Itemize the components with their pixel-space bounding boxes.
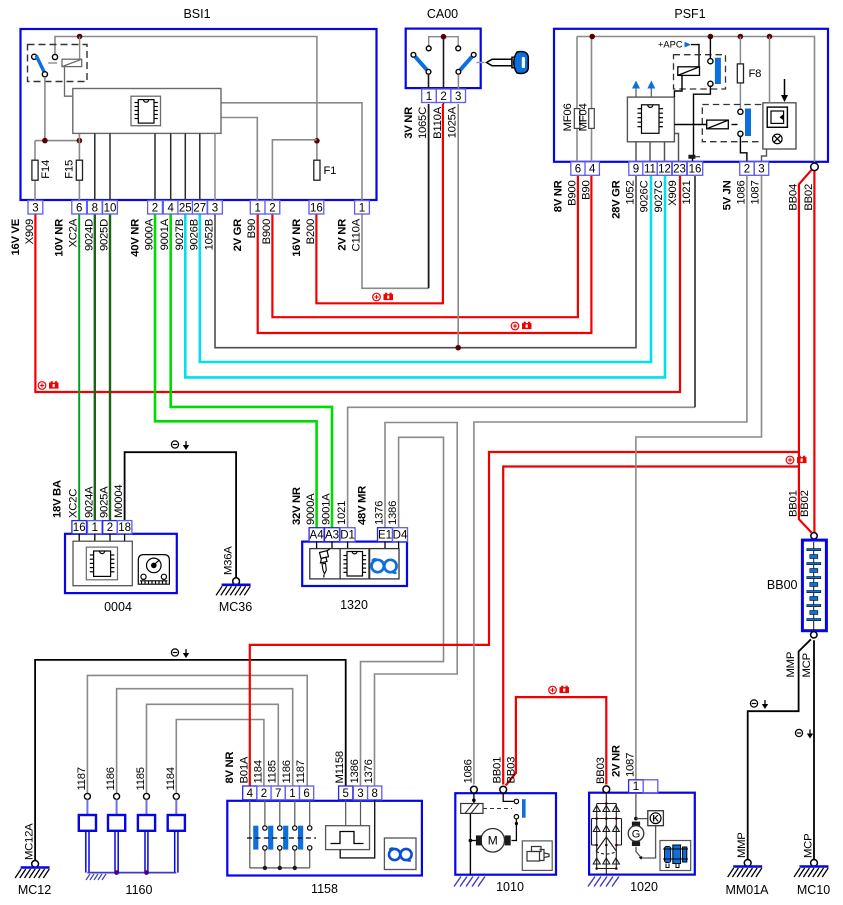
svg-text:1086: 1086 (735, 181, 747, 205)
wire 1052B dark grey BSI1 pin3b to PSF1 pin9 (215, 176, 636, 348)
svg-text:BB00: BB00 (767, 578, 798, 592)
pin 25 BSI1 (178, 201, 193, 215)
svg-text:K: K (652, 813, 659, 823)
battery symbol on B200 (373, 293, 393, 301)
pin A3 1320 (325, 528, 340, 542)
svg-text:1: 1 (633, 781, 639, 793)
svg-text:2V GR: 2V GR (232, 219, 244, 252)
pin 2 BSI1 (265, 201, 280, 215)
fuse F1 (314, 160, 320, 180)
pin D4 1320 (393, 528, 408, 542)
wire F14 leg (34, 141, 36, 200)
svg-text:BB01: BB01 (787, 490, 799, 517)
svg-text:C110A: C110A (351, 218, 363, 251)
switch lever CA00 left (411, 52, 416, 57)
svg-text:2: 2 (269, 202, 275, 214)
svg-text:32V NR: 32V NR (291, 487, 303, 525)
blue bar K3 (745, 109, 751, 137)
pin 1 BSI1 (250, 201, 265, 215)
svg-text:7: 7 (275, 788, 281, 800)
svg-text:XC2C: XC2C (68, 489, 80, 518)
dashed link (483, 808, 512, 810)
svg-text:10: 10 (104, 202, 117, 214)
wire MF06 leg (576, 37, 578, 163)
svg-text:1320: 1320 (340, 598, 368, 612)
svg-text:11: 11 (644, 164, 656, 176)
svg-text:1186: 1186 (281, 760, 293, 783)
spark plug 3 (144, 793, 150, 799)
wire 1160 earth bus (87, 872, 176, 874)
pin 27 BSI1 (192, 201, 207, 215)
wire X909 red BSI1 pin3 to PSF1 pin23 (35, 176, 680, 392)
svg-text:25: 25 (179, 202, 192, 214)
node lever end circle (42, 72, 47, 77)
pin 3 CA00 (451, 89, 466, 103)
svg-text:A3: A3 (325, 530, 339, 542)
svg-text:2: 2 (152, 202, 158, 214)
svg-text:2V NR: 2V NR (610, 745, 622, 777)
svg-text:5: 5 (342, 788, 348, 800)
svg-text:6: 6 (303, 788, 309, 800)
box CA00 (406, 29, 481, 89)
wire 1025A grey CA00 pin3 down to 1052 junction (457, 104, 459, 348)
wire bus drop to module (769, 37, 771, 103)
svg-text:9026B: 9026B (188, 219, 200, 250)
svg-text:MCP: MCP (801, 653, 813, 677)
wire pin16 stub (692, 158, 694, 162)
ECU box BSI1 (73, 89, 221, 134)
fuse MF04 (589, 109, 595, 129)
wire BB03 red 1010 to 1020 (506, 697, 607, 785)
pin 3 1158 (353, 786, 367, 800)
wire B900 red BSI1 pin2b to PSF1 pin6 (272, 176, 578, 317)
box PSF1 (554, 29, 828, 162)
spark plug 1 (84, 793, 90, 799)
svg-text:1087: 1087 (624, 753, 636, 777)
injector icon 1320 (320, 549, 331, 578)
svg-text:MM01A: MM01A (725, 883, 769, 897)
pin 3 PSF1 (754, 162, 768, 176)
svg-text:1: 1 (426, 91, 432, 103)
svg-text:3: 3 (32, 202, 38, 214)
node MC12 terminal (32, 861, 39, 868)
pin 18 0004 (117, 521, 132, 534)
wire K2 coil to ECU (674, 75, 682, 97)
svg-text:1021: 1021 (336, 501, 348, 525)
svg-text:MC36: MC36 (219, 600, 252, 614)
pin 4 1158 (243, 786, 257, 800)
wire pin3 stub (360, 800, 362, 826)
svg-text:10V NR: 10V NR (54, 219, 66, 257)
wire contact to motor (512, 819, 517, 841)
svg-text:1187: 1187 (295, 760, 307, 783)
svg-text:XC2A: XC2A (68, 218, 80, 247)
node switch contact circle A (32, 54, 37, 59)
svg-text:D4: D4 (393, 530, 408, 542)
svg-text:6: 6 (575, 164, 581, 176)
wire 1187 grey plug1 to 1158 pin6 (87, 675, 307, 793)
svg-text:M0004: M0004 (113, 485, 125, 518)
wire pin stubs 0004 (79, 534, 124, 541)
wire BB01 to contact (503, 793, 514, 801)
fuse F15 (76, 160, 82, 180)
svg-text:1386: 1386 (349, 759, 361, 783)
svg-text:9026C: 9026C (639, 180, 651, 212)
svg-text:40V NR: 40V NR (130, 219, 142, 257)
ECU box PSF1 (627, 97, 674, 142)
svg-text:1187: 1187 (76, 767, 88, 790)
pin 23 PSF1 (672, 162, 686, 176)
svg-text:1052: 1052 (625, 181, 637, 205)
svg-text:27: 27 (193, 202, 206, 214)
wire BB01 red supply to 1010 (503, 467, 799, 785)
wire MF04 leg (591, 37, 593, 163)
svg-text:6: 6 (76, 202, 82, 214)
svg-text:F14: F14 (40, 160, 52, 179)
wire 9026B cyan BSI1 pin27 to PSF1 pin11 (200, 176, 651, 362)
svg-text:1086: 1086 (462, 759, 474, 783)
chip icon 1320 (343, 552, 366, 577)
svg-text:PSF1: PSF1 (674, 7, 705, 21)
alternator icon box (660, 841, 691, 871)
svg-text:BB02: BB02 (799, 490, 811, 517)
svg-text:B01A: B01A (238, 756, 250, 783)
pin 11 PSF1 (643, 162, 657, 176)
svg-text:G: G (632, 829, 641, 841)
pin E1 1320 (378, 528, 393, 542)
blue bar 1010 (522, 799, 526, 818)
svg-text:1158: 1158 (311, 882, 338, 896)
svg-text:1376: 1376 (363, 759, 375, 783)
1158 internals (250, 800, 310, 868)
battery BB00 (802, 540, 826, 631)
wire M0004 black 0004 pin18 to ground MC36 (125, 452, 237, 578)
svg-text:B900: B900 (567, 181, 579, 206)
node terminal 1086 (471, 786, 478, 793)
chip icon U1 (131, 96, 161, 126)
wire lever to fuse rail (44, 77, 46, 141)
wire solenoid ground (469, 813, 471, 874)
node K3 contact circles (738, 109, 743, 114)
node 1160 bus dots (114, 870, 119, 875)
svg-text:X909: X909 (24, 219, 36, 244)
wire coil bus (250, 867, 310, 869)
svg-text:3: 3 (758, 164, 764, 176)
box 1010 (455, 793, 556, 875)
minus symbol MCP (795, 729, 813, 738)
svg-text:MC10: MC10 (797, 883, 830, 897)
wire 9025D dark green BSI1 pin10 to 0004 pin2 (109, 212, 111, 528)
wire 1021 grey 1320 D1 to PSF1 pin16 (348, 407, 695, 528)
svg-text:1185: 1185 (135, 767, 147, 790)
svg-text:16: 16 (689, 164, 702, 176)
svg-text:X909: X909 (667, 181, 679, 206)
ground hatch 1160 (86, 874, 106, 880)
node contact circles 1010 (514, 799, 518, 803)
svg-text:16: 16 (73, 522, 86, 534)
wire pin8 route (340, 800, 375, 858)
chip icon 0004 (86, 547, 117, 580)
node contact circle right (456, 46, 461, 51)
pin 16 PSF1 (687, 162, 702, 176)
minus symbol MMP (750, 700, 768, 709)
wire 9024D dark green BSI1 pin8 to 0004 pin1 (94, 212, 96, 528)
svg-text:16: 16 (310, 202, 323, 214)
fuse F14 (32, 160, 38, 180)
wire pin1 drop (635, 793, 637, 819)
connector pins BSI1 (10, 201, 370, 257)
svg-text:18V BA: 18V BA (51, 480, 63, 518)
blue up arrows (635, 89, 637, 98)
box 1320 (302, 542, 407, 586)
wire 1386 grey 1320 D4 to 1158 pin3 (361, 437, 444, 787)
svg-text:BB03: BB03 (595, 757, 607, 784)
down arrow (784, 79, 786, 97)
pin 10 BSI1 (103, 201, 118, 215)
svg-text:1: 1 (289, 788, 295, 800)
svg-text:BB01: BB01 (492, 757, 504, 784)
svg-text:1: 1 (359, 202, 365, 214)
chip icon PSF1 (638, 105, 664, 134)
svg-text:1: 1 (254, 202, 260, 214)
pin 1 CA00 (422, 89, 437, 103)
svg-text:1376: 1376 (374, 501, 386, 525)
wire B01A red supply to 1158 pin4 (250, 452, 799, 787)
node rail dot B (77, 138, 83, 144)
pin 1 BSI1 (355, 201, 370, 215)
svg-text:1020: 1020 (630, 880, 658, 894)
svg-text:B900: B900 (261, 219, 273, 244)
wire 1087 grey PSF1 pin3 to 1020 pin1 (636, 176, 762, 780)
inner box 0004 (73, 541, 132, 586)
switch lever blue (36, 56, 44, 73)
svg-text:1184: 1184 (165, 767, 177, 790)
svg-text:16V VE: 16V VE (10, 218, 22, 255)
wire 1065C black riser to CA00 pin1 (428, 104, 430, 288)
svg-text:1052B: 1052B (204, 219, 216, 250)
svg-text:1: 1 (92, 522, 98, 534)
svg-text:4: 4 (589, 164, 596, 176)
pin 6 BSI1 (72, 201, 87, 215)
module square icon (767, 107, 787, 127)
svg-text:1160: 1160 (126, 883, 153, 897)
relay coil K1 (62, 59, 82, 66)
blue bar K2 (715, 58, 721, 84)
svg-text:9024D: 9024D (83, 219, 95, 251)
pin 3 BSI1 (208, 201, 223, 215)
svg-text:1065C: 1065C (417, 107, 429, 139)
fuse F8 line (739, 37, 741, 110)
pin 4 BSI1 (163, 201, 178, 215)
svg-text:MF04: MF04 (578, 104, 590, 132)
svg-text:2: 2 (107, 522, 113, 534)
svg-text:MF06: MF06 (562, 104, 574, 132)
svg-text:9001A: 9001A (159, 218, 171, 250)
svg-text:CA00: CA00 (427, 7, 458, 21)
pin 16 0004 (72, 521, 87, 534)
pin 1 0004 (88, 521, 103, 534)
pin 2 PSF1 (740, 162, 754, 176)
lamp circle-X (773, 134, 783, 144)
blower module box (763, 103, 796, 149)
svg-text:MC12: MC12 (18, 883, 51, 897)
svg-text:2: 2 (261, 788, 267, 800)
svg-text:MCP: MCP (803, 834, 815, 858)
transistor path (636, 826, 656, 858)
battery symbol on X909 (38, 381, 58, 389)
svg-text:MMP: MMP (736, 832, 748, 858)
svg-text:8V NR: 8V NR (553, 180, 565, 212)
wire B200 red BSI1 pin16 to CA00 pin2 (316, 104, 443, 303)
svg-text:A4: A4 (310, 530, 325, 542)
node junction 1025A/1052 (455, 345, 461, 351)
wire 1376 grey 1320 E1 to 1158 pin8 (375, 423, 458, 788)
node bridge dots (595, 802, 617, 870)
node rail dot A (42, 138, 48, 144)
ground MC36 (216, 585, 251, 596)
wire ECU drops to pins (95, 133, 200, 200)
pin 2 0004 (103, 521, 118, 534)
diode bridge 1020 (592, 793, 622, 875)
minus symbol M0004 (171, 441, 189, 450)
pin 1 1020 (629, 780, 644, 793)
wire K2 contact feed (709, 37, 711, 59)
svg-text:28V GR: 28V GR (611, 180, 623, 219)
svg-text:8: 8 (371, 788, 377, 800)
svg-text:BB04: BB04 (787, 184, 799, 211)
svg-text:9027B: 9027B (174, 219, 186, 250)
pin 16 BSI1 (309, 201, 324, 215)
wire 1184 grey plug4 to 1158 pin2 (176, 720, 264, 794)
svg-text:23: 23 (673, 164, 686, 176)
wire B90 riser (221, 118, 257, 201)
svg-text:F8: F8 (749, 68, 762, 80)
pin 4 PSF1 (585, 162, 599, 176)
wire MMP black battery minus to MM01A (748, 639, 811, 860)
battery symbol on BB03 (549, 686, 569, 694)
pin 2 CA00 (436, 89, 451, 103)
node bus junction dot (77, 34, 83, 40)
svg-text:8V NR: 8V NR (224, 752, 236, 784)
wire BSI1 internal bus (55, 37, 317, 161)
svg-text:1184: 1184 (253, 760, 265, 783)
wire pin4 feed (249, 800, 251, 868)
G alternator 1020 (632, 822, 640, 827)
svg-text:3: 3 (212, 202, 218, 214)
pin A4 1320 (309, 528, 324, 542)
wire CA00 centre feed (443, 37, 445, 104)
relay coil K2 (678, 67, 700, 76)
pin D1 1320 (340, 528, 355, 542)
wire coil to ECU (65, 67, 73, 97)
coil icon 1320 (372, 559, 397, 573)
node battery plus terminal (811, 533, 817, 539)
pin 12 PSF1 (657, 162, 671, 176)
svg-text:9027C: 9027C (653, 180, 665, 212)
pin 7 1158 (271, 786, 285, 800)
wire B90 red BSI1 pin1 to PSF1 pin4 (258, 176, 592, 333)
pin 2 BSI1 (148, 201, 163, 215)
svg-text:1025A: 1025A (447, 106, 459, 138)
svg-text:BB02: BB02 (803, 184, 815, 211)
svg-text:2: 2 (744, 164, 750, 176)
wire pin5 stub (345, 800, 347, 826)
svg-text:M: M (488, 834, 498, 848)
contact tick K3 (732, 124, 738, 126)
wire ECU to K3 coil (674, 124, 706, 126)
svg-text:1021: 1021 (681, 181, 693, 205)
wire fuse rail (35, 140, 79, 142)
fuse MF06 (574, 109, 580, 129)
wire ECU drop 1052B (214, 133, 216, 200)
svg-text:MC12A: MC12A (24, 823, 36, 860)
svg-text:1087: 1087 (749, 181, 761, 205)
node F1 junction dot (314, 138, 320, 144)
wire CA00 bus (429, 37, 459, 46)
node MM01A terminal (744, 860, 751, 867)
svg-text:9001A: 9001A (321, 493, 333, 525)
wire BB02 red PSF1 terminal to battery plus (813, 171, 815, 533)
starter icon box (522, 841, 552, 871)
node bus dots (589, 34, 595, 40)
wire 1086 grey PSF1 pin2 to 1010 (474, 176, 747, 785)
spark plug 2 (114, 793, 120, 799)
pin 8 1158 (368, 786, 382, 800)
battery symbol on B90 (511, 322, 531, 330)
wire XC2A green BSI1 pin6 to 0004 pin16 (78, 212, 80, 528)
node CA00 bus dot (441, 34, 447, 40)
pin 6 PSF1 (571, 162, 585, 176)
svg-text:4: 4 (247, 788, 254, 800)
wire contact tick (48, 62, 57, 64)
svg-text:E1: E1 (378, 530, 392, 542)
spark plug 4 (173, 793, 179, 799)
minus symbol M1158 (171, 649, 189, 658)
wire lever to pin1 (428, 75, 430, 90)
relay K3 dashed box (702, 105, 764, 142)
svg-text:BB03: BB03 (506, 757, 518, 784)
node battery minus terminal (811, 632, 817, 638)
node terminal BB01 (500, 786, 507, 793)
coil contact circles (263, 826, 312, 850)
box 1158 (227, 801, 422, 876)
node MC36 terminal (233, 578, 240, 585)
svg-text:3: 3 (455, 91, 461, 103)
svg-text:0004: 0004 (104, 600, 132, 614)
node switch contact circle B (52, 54, 57, 59)
svg-text:5V JN: 5V JN (721, 180, 733, 210)
K box 1020 (648, 811, 664, 826)
pin 8 BSI1 (87, 201, 102, 215)
svg-text:12: 12 (658, 164, 671, 176)
wire to K box (636, 818, 648, 820)
svg-text:3V NR: 3V NR (403, 107, 415, 139)
wire PSF1 bus (577, 37, 815, 163)
relay coil K3 (707, 120, 729, 129)
svg-text:F1: F1 (324, 165, 337, 177)
svg-text:3: 3 (357, 788, 363, 800)
svg-text:16V NR: 16V NR (291, 219, 303, 257)
blue bars 1158 (253, 826, 303, 850)
wire 9027B cyan BSI1 pin25 to PSF1 pin12 (185, 176, 665, 377)
wire module output to pin3 (762, 149, 767, 162)
wire key link (477, 62, 485, 64)
wire 1186 grey plug2 to 1158 pin1 (117, 689, 293, 794)
svg-text:9: 9 (633, 164, 639, 176)
wire K2 output to pin16 (694, 86, 711, 155)
svg-text:9024A: 9024A (83, 486, 95, 518)
node PSF1 terminal circle (811, 163, 819, 171)
